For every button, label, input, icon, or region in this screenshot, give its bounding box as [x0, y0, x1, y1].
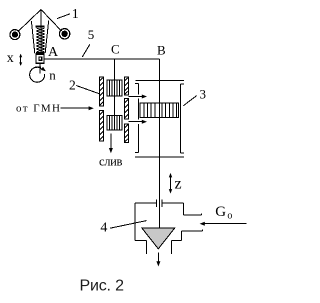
servo rod from B	[159, 59, 161, 228]
valve 4 right inlet upper step	[183, 203, 201, 215]
svg-text:4: 4	[100, 221, 107, 236]
label 4	[100, 221, 146, 236]
svg-text:2: 2	[69, 78, 76, 93]
valve 4 right inlet lower step	[171, 229, 202, 254]
label 1	[57, 7, 79, 22]
node C wire down	[113, 59, 115, 80]
label Go	[215, 204, 232, 221]
port arrow upper to cylinder	[128, 95, 147, 99]
shaft stub below box	[35, 64, 41, 74]
svg-text:n: n	[49, 68, 56, 83]
svg-text:B: B	[157, 43, 166, 58]
rotation arrow n	[30, 67, 46, 82]
cylinder 3 left wall	[135, 84, 138, 153]
valve 4 left wall	[135, 203, 147, 254]
svg-text:z: z	[175, 176, 182, 193]
governor U1 apex linkage	[18, 10, 62, 55]
stroke arrow z	[169, 173, 172, 194]
svg-text:x: x	[7, 51, 14, 66]
port arrow lower to cylinder	[128, 120, 147, 124]
link rod 5 horizontal	[44, 58, 159, 60]
outlet arrow down	[156, 253, 160, 267]
svg-text:слив: слив	[99, 154, 122, 168]
spool land lower	[107, 116, 122, 131]
flyweight right	[59, 29, 69, 39]
svg-text:от ГМН: от ГМН	[16, 103, 60, 115]
svg-text:C: C	[111, 41, 120, 56]
governor sleeve trapezoid	[31, 21, 48, 54]
label 2	[69, 78, 100, 94]
label 3	[184, 87, 207, 106]
poppet cone of valve 4	[142, 228, 175, 249]
valve 2 left sleeve wall	[99, 77, 103, 141]
flyweight left	[10, 30, 20, 40]
cylinder 3 top cap line	[136, 79, 185, 81]
servo piston 3	[140, 103, 178, 118]
svg-text:5: 5	[88, 27, 95, 42]
cylinder 3 bottom cap line	[135, 156, 184, 158]
fuel flow arrow Go	[200, 222, 247, 226]
svg-text:1: 1	[72, 7, 79, 22]
spool stem	[113, 96, 115, 115]
drain arrow слив	[109, 134, 113, 154]
spool land upper	[107, 80, 122, 96]
label 5	[82, 27, 94, 57]
svg-text:A: A	[48, 45, 59, 60]
svg-text:o: o	[227, 210, 232, 221]
cylinder 3 right wall	[181, 84, 184, 153]
valve 2 right sleeve wall	[124, 77, 128, 143]
label x with double arrow	[7, 51, 22, 66]
valve 4 body top	[135, 199, 183, 207]
arrow from GMN inlet	[61, 106, 94, 110]
svg-text:Рис. 2: Рис. 2	[80, 277, 125, 294]
slider box node A	[36, 54, 44, 63]
svg-text:3: 3	[200, 87, 207, 102]
svg-text:G: G	[215, 204, 226, 220]
spring K1	[36, 26, 45, 54]
